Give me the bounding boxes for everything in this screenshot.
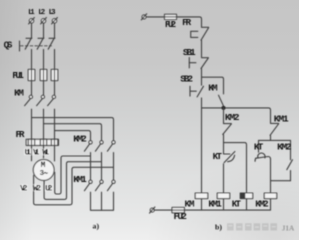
wire L1 to QS xyxy=(31,23,33,38)
wire tap phase2 to KM2 column2 xyxy=(44,124,102,141)
svg-text:KT: KT xyxy=(213,151,223,162)
svg-text:M: M xyxy=(41,161,46,170)
switch QS pole 1 xyxy=(25,38,32,49)
node L2 terminal xyxy=(41,18,47,24)
wire branch to KM aux xyxy=(202,77,224,94)
wire bus node row xyxy=(202,108,271,123)
svg-text:3: 3 xyxy=(40,170,45,178)
svg-text:b): b) xyxy=(215,222,222,231)
node control terminal bottom xyxy=(150,207,155,213)
wire FU2 to FR contact xyxy=(177,17,202,27)
wire KM to FR phase2 xyxy=(43,109,45,139)
contactor KM2 NC interlock contact xyxy=(223,108,232,134)
svg-text:U1: U1 xyxy=(25,149,32,158)
wire motor U2 to riser (inner U) xyxy=(55,156,91,194)
contactor KM2 NO self-hold contact xyxy=(287,160,293,170)
wire KM2 column2 down to KM1 xyxy=(101,153,103,181)
svg-text:FU2: FU2 xyxy=(165,19,176,30)
wire KM1NC to split node xyxy=(270,135,272,140)
wire KM2 column3 down to KM1 xyxy=(113,153,115,181)
svg-text:KM: KM xyxy=(208,83,218,94)
wire to KT NO contact xyxy=(258,140,260,152)
wire to KM2 NO contact xyxy=(290,140,292,159)
node L1 terminal xyxy=(29,18,35,24)
svg-text:KM2: KM2 xyxy=(73,133,87,144)
time relay KT NO delayed-closing contact xyxy=(255,153,270,161)
node junction dot xyxy=(221,106,225,110)
contactor KM2 contact 3 xyxy=(107,141,115,152)
wire FR to motor V1 xyxy=(43,145,45,158)
pushbutton SB2 (start, NO) xyxy=(190,86,204,97)
wire split node horizontal xyxy=(259,139,291,141)
time relay KT NC delayed-opening contact xyxy=(224,152,235,163)
contactor KM main contact 3 xyxy=(48,95,56,105)
svg-text:V1: V1 xyxy=(33,149,40,158)
wire KT NO to KM2 coil xyxy=(270,159,272,194)
wire KM2NC to node B xyxy=(223,135,225,154)
wire node B to KT coil xyxy=(224,143,247,194)
wire tap phase3 to KM2 column1 xyxy=(55,131,91,141)
svg-text:L2: L2 xyxy=(38,9,45,17)
fuse FU2 top xyxy=(165,14,177,19)
fuse FU2 bottom xyxy=(172,207,184,212)
wire rejoin horizontal xyxy=(271,180,291,182)
contactor KM2 contact 2 xyxy=(95,141,103,152)
contactor KM1 contact 3 xyxy=(107,180,115,191)
wire KM to FR phase3 xyxy=(54,109,56,139)
watermark xyxy=(227,223,295,232)
coil KM1 xyxy=(217,193,230,199)
svg-text:U2: U2 xyxy=(45,184,52,193)
switch QS pole 2 xyxy=(37,38,44,49)
wire KT NC to KM1 coil xyxy=(223,164,225,194)
node L3 terminal xyxy=(52,18,58,24)
fuse FU1 element 3 xyxy=(51,69,58,80)
svg-text:KM2: KM2 xyxy=(225,112,240,123)
wire bottom bus xyxy=(154,209,270,211)
contactor KM auxiliary NO contact xyxy=(219,95,225,108)
svg-text:QS: QS xyxy=(4,39,13,50)
wire KM2 NO down xyxy=(290,171,292,181)
svg-text:KM2: KM2 xyxy=(255,199,268,210)
svg-text:FR: FR xyxy=(16,129,25,140)
svg-text:L3: L3 xyxy=(49,9,56,17)
fuse FU1 element 2 xyxy=(40,69,47,80)
contactor KM2 contact 1 xyxy=(84,141,92,152)
contactor KM1 contact 2 xyxy=(95,180,103,191)
contactor KM1 contact 1 xyxy=(84,180,92,191)
svg-text:KM1: KM1 xyxy=(73,174,87,185)
svg-text:KT: KT xyxy=(254,141,264,152)
svg-text:KM1: KM1 xyxy=(208,199,222,210)
contactor KM main contact 1 xyxy=(25,95,33,105)
svg-text:KT: KT xyxy=(232,199,242,210)
wire KM2 column1 down to KM1 xyxy=(90,153,92,181)
svg-text:W2: W2 xyxy=(33,184,41,193)
svg-text:KM: KM xyxy=(14,87,24,98)
wire KM to FR phase1 xyxy=(31,109,33,139)
wire motor W2 to riser (middle U) xyxy=(44,162,101,200)
wire FR to SB1 xyxy=(201,40,203,57)
svg-text:W1: W1 xyxy=(42,149,49,158)
svg-text:SB1: SB1 xyxy=(183,47,196,58)
wire QS to FU1 phase2 xyxy=(43,49,45,95)
svg-text:a): a) xyxy=(93,222,100,231)
thermal relay FR NC contact xyxy=(191,27,209,40)
contactor KM main contact 2 xyxy=(37,95,45,105)
wire KT coil to bottom bus xyxy=(246,199,248,210)
wire QS to FU1 phase1 xyxy=(31,49,33,95)
svg-text:V2: V2 xyxy=(20,184,28,193)
coil KM2 xyxy=(264,193,277,199)
thermal overload relay FR heaters xyxy=(26,139,58,145)
wire L2 to QS xyxy=(43,23,45,38)
wire tap phase1 to KM2 column3 xyxy=(32,118,114,141)
coil KM xyxy=(195,193,208,199)
wire KM1 coil to bottom bus xyxy=(223,199,225,210)
wire terminal to FU2 xyxy=(146,16,165,18)
svg-text:L1: L1 xyxy=(28,9,35,17)
wire KM coil to bottom bus xyxy=(201,199,203,210)
coil KT xyxy=(240,193,253,199)
wire SB2 to bus xyxy=(201,98,203,108)
wire main line down to KM coil xyxy=(201,108,203,193)
svg-text:J1A: J1A xyxy=(282,224,295,232)
svg-text:KM: KM xyxy=(185,199,195,210)
svg-text:KM1: KM1 xyxy=(274,114,289,125)
wire FR to motor U1 xyxy=(31,145,33,160)
svg-text:FU2: FU2 xyxy=(174,211,188,222)
node control terminal top xyxy=(141,14,146,20)
svg-text:KM2: KM2 xyxy=(277,141,292,152)
svg-text:FR: FR xyxy=(182,17,191,28)
wire motor V2 to riser (outer U) xyxy=(34,167,114,205)
wire KM1 star point bar xyxy=(91,192,114,210)
switch QS pole 3 xyxy=(48,38,55,49)
wire SB1 to SB2 xyxy=(201,69,203,86)
fuse FU1 element 1 xyxy=(28,69,35,80)
wire QS to FU1 phase3 xyxy=(54,49,56,95)
switch QS linkage xyxy=(20,41,52,51)
svg-text:FU1: FU1 xyxy=(12,70,24,81)
motor M circle xyxy=(33,160,54,181)
wire L3 to QS xyxy=(54,23,56,38)
contactor KM1 NC interlock contact xyxy=(270,123,279,135)
pushbutton SB1 (stop, NC) xyxy=(189,58,208,69)
label background patches xyxy=(20,149,53,192)
wire KM2 coil to bottom bus xyxy=(270,199,272,210)
wire FR to motor W1 xyxy=(54,145,56,161)
svg-text:SB2: SB2 xyxy=(180,73,193,84)
